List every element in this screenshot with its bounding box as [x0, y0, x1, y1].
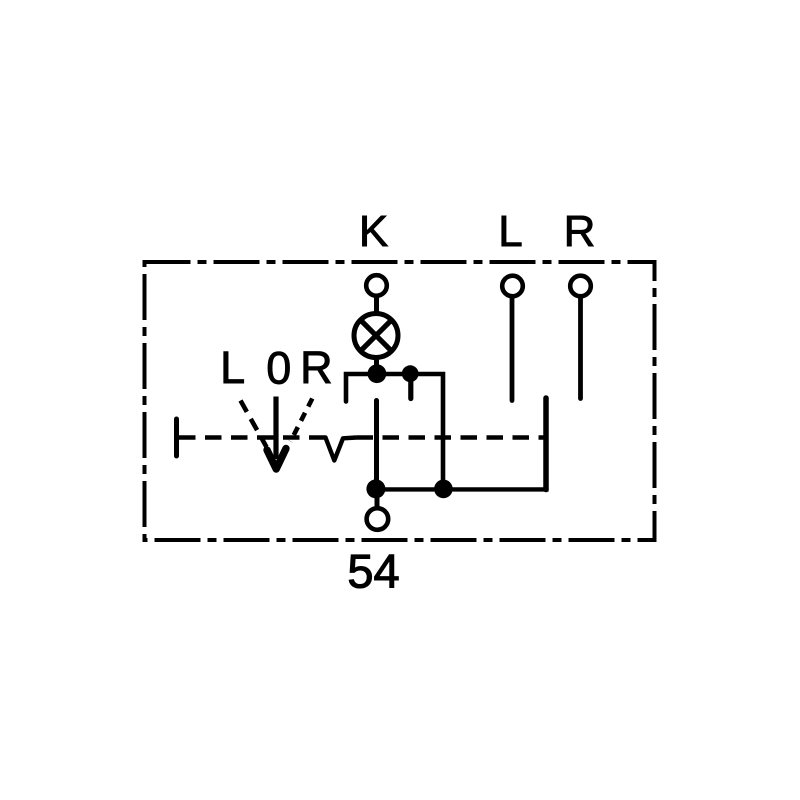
svg-text:R: R: [300, 342, 333, 393]
junction dot bottom-right: [434, 480, 453, 499]
lever arrow (position 0): [273, 397, 278, 460]
moving contact wire (centre): [374, 401, 379, 489]
junction dot bottom-left: [366, 479, 385, 498]
lever pivot tick: [174, 419, 179, 456]
terminal L: [502, 276, 523, 297]
svg-text:R: R: [564, 207, 596, 256]
detent notch: [311, 438, 357, 461]
svg-text:K: K: [359, 207, 388, 256]
terminal R: [570, 276, 591, 297]
wire lamp to bus bar: [374, 357, 379, 373]
indicator lamp: [354, 314, 398, 358]
svg-text:0: 0: [266, 343, 291, 394]
position line R (dashed): [291, 399, 313, 442]
position line L (dashed): [241, 401, 267, 448]
actuator dashed line right part: [357, 435, 544, 439]
switch housing outline (dash-dot frame): [145, 262, 655, 540]
bus bar with left contact stub and right drop wire: [346, 374, 443, 489]
terminal K: [366, 275, 387, 296]
actuator dashed line left part: [179, 435, 311, 439]
junction dot bar-lamp: [368, 364, 387, 383]
fixed contact wire right: [543, 398, 549, 490]
bottom wire to fixed contact: [376, 487, 549, 491]
wire from L terminal: [510, 296, 515, 400]
wire terminal K to lamp: [374, 296, 379, 315]
junction dot bar-right: [402, 365, 419, 382]
wire from R terminal: [578, 296, 583, 398]
svg-text:L: L: [220, 342, 245, 393]
svg-text:54: 54: [347, 545, 399, 598]
svg-text:L: L: [498, 207, 522, 256]
contact stub under bar dot: [408, 376, 413, 399]
terminal 54: [367, 508, 389, 530]
wire to terminal 54: [375, 489, 380, 507]
